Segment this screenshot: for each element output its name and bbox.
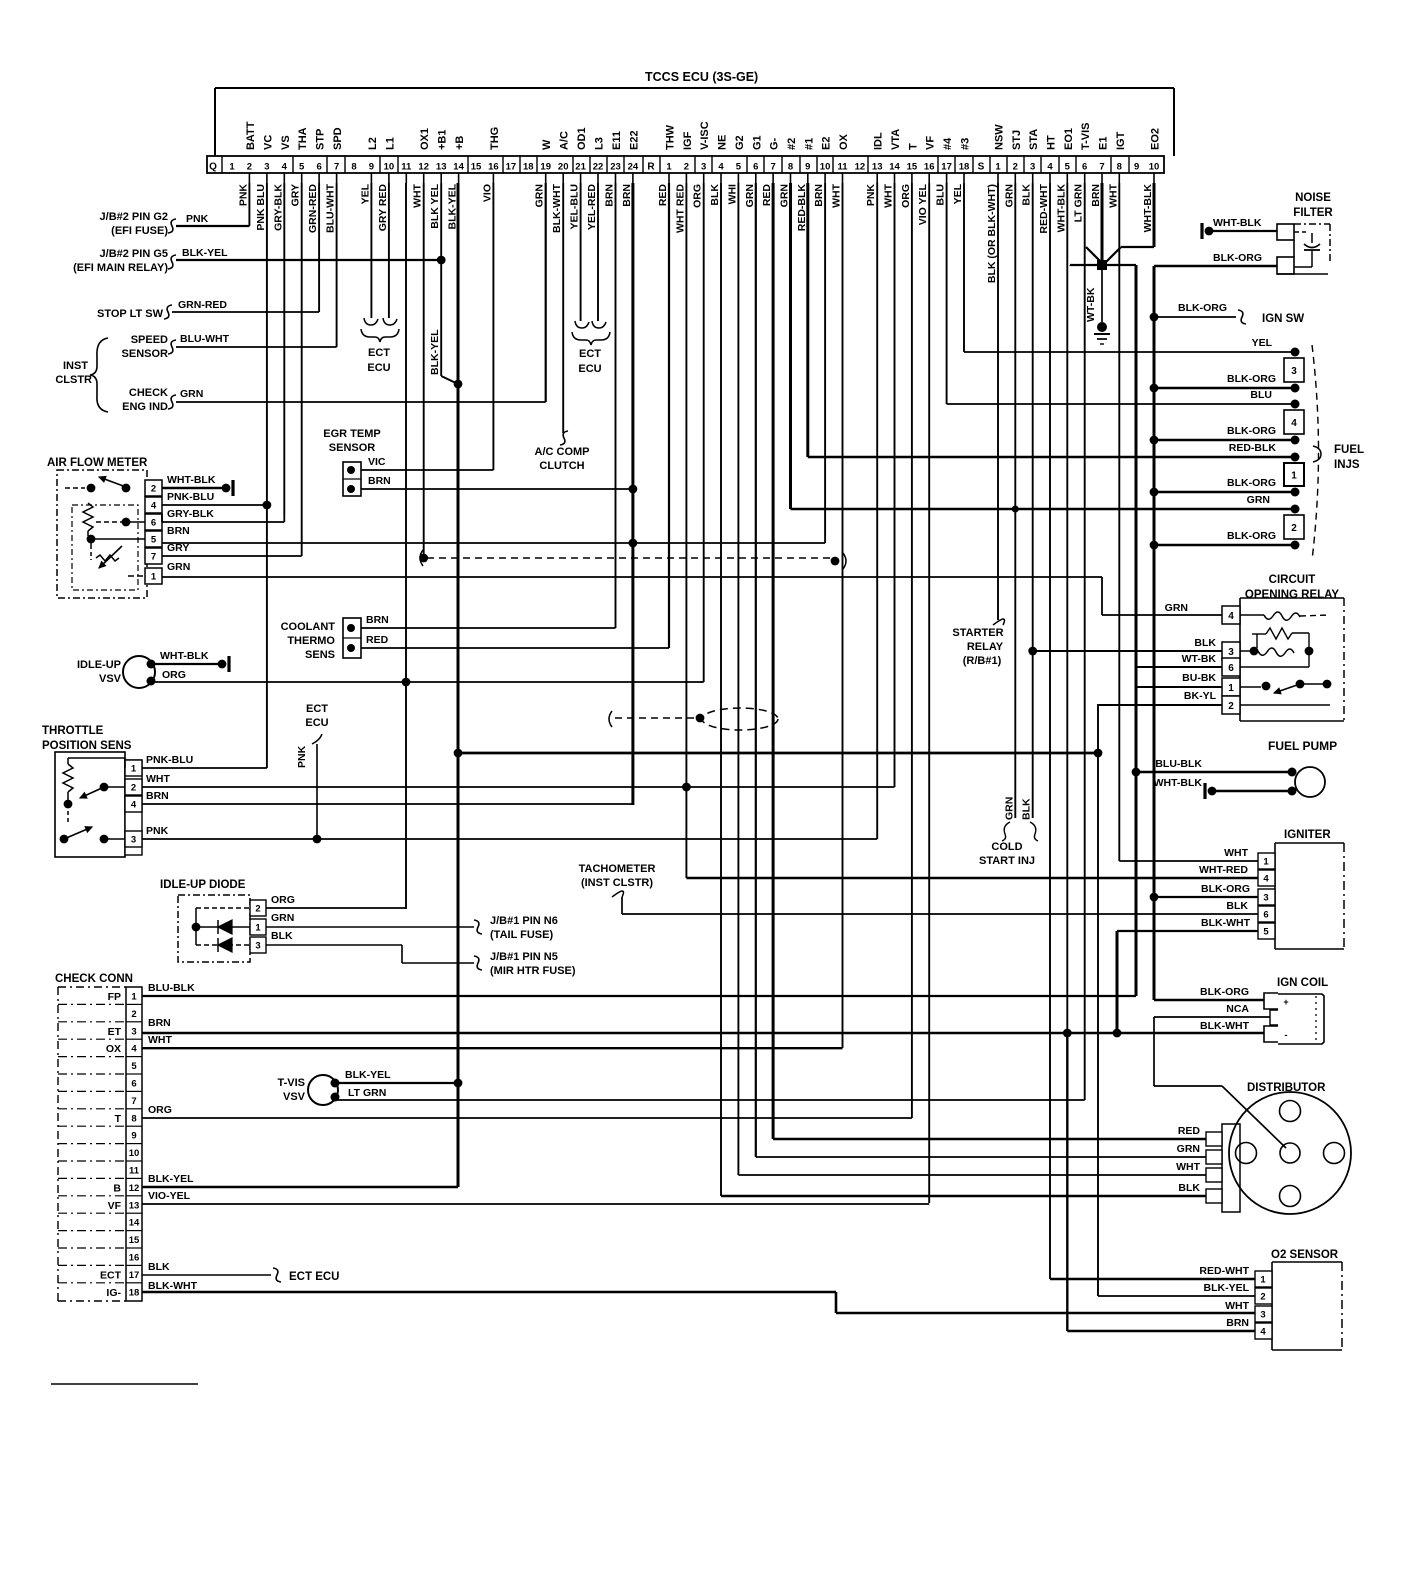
junction GRN S2 crossing [1012, 506, 1019, 513]
wire S10 WHT-BLK vertical [1153, 183, 1156, 247]
svg-text:YEL: YEL [1252, 337, 1273, 349]
svg-text:PNK BLU: PNK BLU [255, 184, 267, 231]
IGN SW [1150, 313, 1159, 322]
svg-text:WHT: WHT [1176, 1161, 1200, 1173]
igniter pin boxes [1258, 853, 1275, 869]
air flow meter pin5 link [87, 535, 96, 544]
svg-text:3: 3 [701, 162, 706, 173]
svg-text:BLU-BLK: BLU-BLK [1155, 758, 1202, 770]
wire S5 WHT-BLK vertical [1066, 183, 1068, 1033]
distributor connector [1222, 1124, 1240, 1212]
svg-text:BLK-YEL: BLK-YEL [429, 329, 441, 375]
svg-text:VIO-YEL: VIO-YEL [148, 1190, 191, 1202]
svg-text:GRN: GRN [1247, 494, 1270, 506]
svg-text:GRN: GRN [779, 184, 791, 207]
svg-text:NE: NE [717, 135, 729, 150]
air flow meter pin boxes [145, 480, 162, 496]
idle-up diode pin boxes [250, 900, 266, 916]
svg-text:2: 2 [1291, 523, 1297, 534]
wire Q23 BRN vertical [615, 183, 617, 628]
svg-text:OX: OX [106, 1043, 121, 1055]
wire throttle PNK to R13 [142, 838, 877, 840]
svg-text:G2: G2 [734, 135, 746, 150]
svg-text:GRN: GRN [1177, 1143, 1200, 1155]
svg-text:12: 12 [418, 162, 429, 173]
E1 ground junction [1097, 260, 1107, 270]
wire Q5 GRY vertical [301, 183, 303, 556]
svg-text:START INJ: START INJ [979, 855, 1035, 867]
wire Q24 BRN net vertical [631, 183, 634, 805]
svg-text:WHT-BLK: WHT-BLK [1055, 184, 1067, 233]
svg-text:GRN: GRN [744, 184, 756, 207]
svg-text:SENSOR: SENSOR [122, 348, 169, 360]
svg-text:FILTER: FILTER [1293, 207, 1333, 219]
wire VSV WHT-BLK to ground [151, 663, 222, 665]
svg-text:BRN: BRN [813, 184, 825, 207]
air flow meter inner box [72, 505, 138, 590]
igniter box [1274, 843, 1276, 949]
wire check ET BRN to ign coil [142, 1032, 1264, 1035]
svg-text:WHT RED: WHT RED [674, 184, 686, 233]
svg-text:RED: RED [1178, 1125, 1201, 1137]
svg-text:YEL: YEL [359, 183, 371, 204]
circuit opening relay box [1240, 597, 1344, 599]
svg-text:9: 9 [1134, 162, 1139, 173]
svg-text:9: 9 [131, 1131, 136, 1142]
throttle sensor pin boxes [125, 760, 142, 855]
svg-text:ECT: ECT [368, 347, 390, 359]
svg-text:BLK-ORG: BLK-ORG [1201, 883, 1250, 895]
wire BLK-WHT vertical coil to igniter [1116, 931, 1119, 1033]
svg-text:6: 6 [1228, 663, 1234, 674]
A/C COMP CLUTCH [560, 431, 568, 445]
fuel injector group brace [1312, 345, 1319, 560]
svg-text:L1: L1 [384, 137, 396, 150]
circuit opening relay pin boxes [1222, 606, 1240, 624]
wire R14 WHT vertical [894, 183, 896, 787]
wire S2 GRN vertical to cold start inj [1014, 183, 1016, 818]
svg-text:GRN: GRN [271, 912, 294, 924]
svg-text:BLK-WHT: BLK-WHT [1201, 917, 1251, 929]
wire S8 WHT vertical to igniter [1118, 183, 1120, 861]
wire PNK to Q2 [176, 225, 249, 227]
wire R17 BLU vertical to injector 4 [946, 183, 948, 404]
svg-text:BLK-YEL: BLK-YEL [182, 247, 228, 259]
svg-text:BRN: BRN [604, 184, 616, 207]
svg-text:15: 15 [471, 162, 482, 173]
junction ORG Q11 [402, 678, 411, 687]
svg-text:2: 2 [131, 783, 136, 794]
svg-text:E22: E22 [628, 130, 640, 150]
wire igniter BLK-WHT [1117, 930, 1258, 932]
relay coil pin4 [1240, 614, 1264, 616]
svg-text:BLK: BLK [1178, 1182, 1200, 1194]
svg-text:6: 6 [1082, 162, 1087, 173]
wire check B BLK-YEL to +B net [142, 1186, 458, 1188]
svg-text:8: 8 [131, 1113, 136, 1124]
svg-text:BRN: BRN [621, 184, 633, 207]
svg-text:GRN-RED: GRN-RED [178, 299, 227, 311]
svg-text:WHT-BLK: WHT-BLK [1154, 777, 1203, 789]
distributor body [1229, 1092, 1351, 1214]
svg-text:BRN: BRN [1090, 184, 1102, 207]
svg-text:9: 9 [805, 162, 810, 173]
svg-text:GRN: GRN [180, 388, 203, 400]
svg-text:3: 3 [131, 1026, 136, 1037]
svg-text:VSV: VSV [283, 1091, 306, 1103]
wire S4 RED-WHT vertical to O2 sensor [1049, 183, 1051, 1279]
wire Q9 YEL vertical to ECT ECU brace [370, 183, 372, 318]
svg-text:RED-WHT: RED-WHT [1038, 183, 1050, 233]
svg-text:WHT: WHT [883, 183, 895, 207]
wire Q19 GRN vertical [545, 183, 547, 402]
wire throttle BRN to BRN net [142, 803, 633, 805]
wire check ECT BLK to ECT ECU [142, 1274, 271, 1276]
svg-text:BLK: BLK [148, 1261, 170, 1273]
svg-text:RED-BLK: RED-BLK [1229, 442, 1277, 454]
svg-text:POSITION SENS: POSITION SENS [42, 740, 132, 752]
svg-text:ORG: ORG [162, 669, 186, 681]
svg-text:2: 2 [151, 484, 156, 495]
wire S6 LT-GRN vertical to T-VIS VSV [1084, 183, 1086, 1100]
wire Q16 VIO vertical [492, 183, 494, 470]
wire R1 RED vertical [668, 183, 670, 648]
svg-text:IGN SW: IGN SW [1262, 313, 1304, 325]
svg-text:#2: #2 [786, 138, 798, 150]
air flow meter resistor [83, 503, 93, 531]
svg-text:20: 20 [558, 162, 569, 173]
svg-text:#1: #1 [803, 138, 815, 150]
svg-text:12: 12 [855, 162, 866, 173]
svg-text:17: 17 [129, 1270, 140, 1281]
svg-text:CIRCUIT: CIRCUIT [1269, 574, 1316, 586]
svg-text:IDLE-UP DIODE: IDLE-UP DIODE [160, 879, 246, 891]
svg-text:8: 8 [1117, 162, 1122, 173]
INST CLSTR brace [90, 338, 108, 412]
svg-text:BLK: BLK [1021, 184, 1033, 206]
svg-text:S: S [978, 162, 985, 173]
svg-text:BLK YEL: BLK YEL [429, 183, 441, 228]
svg-text:23: 23 [610, 162, 621, 173]
wire BLU-WHT to Q7 [176, 346, 337, 348]
svg-text:(EFI FUSE): (EFI FUSE) [111, 225, 168, 237]
wire Q11 vertical (idle-up ORG net) [405, 183, 407, 908]
svg-text:BLK-ORG: BLK-ORG [1200, 986, 1249, 998]
wire check IG- BLK-WHT to O2 sensor [142, 1291, 836, 1294]
svg-text:8: 8 [788, 162, 793, 173]
O2 sensor pin boxes [1255, 1271, 1272, 1287]
wire Q4 GRY-BLK vertical [283, 183, 285, 514]
EGR sensor connector [343, 462, 361, 496]
svg-text:INJS: INJS [1334, 459, 1360, 471]
svg-text:A/C: A/C [559, 131, 571, 150]
wire R18 YEL to injector 3 [964, 351, 1295, 353]
wire BLK-ORG vertical [1153, 266, 1156, 1000]
svg-text:ECT: ECT [579, 348, 601, 360]
svg-text:PNK-BLU: PNK-BLU [146, 754, 193, 766]
svg-text:1: 1 [666, 162, 672, 173]
J/B#1 PIN N6 (TAIL FUSE) [474, 920, 482, 934]
wire +B BLK-YEL long feed to relay/O2 [458, 752, 1098, 755]
svg-text:24: 24 [628, 162, 639, 173]
svg-text:6: 6 [151, 518, 156, 529]
svg-text:G1: G1 [751, 135, 763, 150]
ECU connector pin row [207, 156, 1164, 173]
wire GRN-RED to Q6 [172, 311, 319, 313]
wire igniter WHT-RED from R2 [686, 877, 1258, 879]
svg-text:ORG: ORG [148, 1104, 172, 1116]
wire distributor RED from R7 [773, 1138, 1206, 1141]
svg-text:B: B [113, 1182, 121, 1194]
svg-text:A/C COMP: A/C COMP [535, 446, 590, 458]
underline mark bottom left [51, 1383, 198, 1385]
svg-text:18: 18 [523, 162, 534, 173]
svg-text:WT-BK: WT-BK [1182, 653, 1217, 665]
svg-text:GRN: GRN [167, 561, 190, 573]
wire AFM WHT-BLK to ground [162, 487, 226, 489]
svg-text:3: 3 [1263, 893, 1268, 904]
svg-text:1: 1 [255, 923, 261, 934]
wire check FP BLU-BLK to fuel pump [142, 995, 1136, 997]
wire BLK-YEL to Q13 [176, 259, 441, 261]
svg-text:GRN: GRN [1003, 184, 1015, 207]
svg-text:GRY: GRY [290, 184, 302, 206]
svg-text:1: 1 [995, 162, 1001, 173]
wire T-VIS LT GRN to S6 [335, 1099, 1085, 1101]
svg-text:EO2: EO2 [1150, 128, 1162, 150]
junction shield R11 [831, 557, 840, 566]
wire AFM GRN to circuit opening relay pin 4 [162, 576, 1102, 578]
wire igniter BLK-ORG [1150, 893, 1159, 902]
wire R11 WHT vertical [842, 183, 844, 1048]
svg-text:4: 4 [718, 162, 724, 173]
svg-text:T-VIS: T-VIS [277, 1077, 305, 1089]
svg-text:3: 3 [1030, 162, 1035, 173]
svg-text:7: 7 [151, 552, 156, 563]
svg-text:ECT: ECT [306, 703, 328, 715]
svg-text:WHT: WHT [148, 1034, 172, 1046]
svg-text:BLK-ORG: BLK-ORG [1227, 477, 1276, 489]
noise filter capacitor [1294, 231, 1306, 233]
svg-text:CLUTCH: CLUTCH [539, 460, 584, 472]
wire BLU-BLK vertical to fuel pump [1135, 265, 1138, 996]
svg-text:IGN COIL: IGN COIL [1277, 977, 1328, 989]
wire R3 ORG vertical [703, 183, 705, 682]
svg-text:BLK-ORG: BLK-ORG [1227, 373, 1276, 385]
svg-text:7: 7 [334, 162, 339, 173]
svg-text:5: 5 [131, 1061, 137, 1072]
svg-text:15: 15 [129, 1235, 140, 1246]
diode internals [195, 908, 197, 945]
throttle sensor body box [55, 752, 125, 857]
svg-text:LT GRN: LT GRN [348, 1087, 386, 1099]
pin tick stubs below row [248, 173, 250, 183]
svg-text:16: 16 [924, 162, 935, 173]
svg-text:GRN: GRN [1003, 797, 1015, 820]
wire fuel pump BLU-BLK [1132, 768, 1141, 777]
wire BLK-YEL vertical COR pin2 / O2 pin2 [1097, 704, 1099, 1296]
svg-text:BLK-ORG: BLK-ORG [1178, 302, 1227, 314]
svg-text:1: 1 [1228, 683, 1234, 694]
svg-text:6: 6 [131, 1079, 136, 1090]
svg-text:PNK: PNK [237, 184, 249, 207]
svg-text:WHT-BLK: WHT-BLK [1142, 184, 1154, 233]
svg-text:10: 10 [820, 162, 831, 173]
wire relay BLK from S3 [1033, 650, 1222, 652]
dashed shield NE G signals [609, 711, 612, 727]
svg-text:BK-YL: BK-YL [1184, 690, 1217, 702]
svg-text:BLU: BLU [935, 184, 947, 206]
svg-text:3: 3 [255, 941, 260, 952]
svg-text:STJ: STJ [1011, 130, 1023, 150]
svg-text:COOLANT: COOLANT [281, 621, 336, 633]
air flow meter body box [57, 470, 147, 598]
junction shield Q12 [419, 554, 428, 563]
svg-text:2: 2 [1260, 1292, 1265, 1303]
svg-text:11: 11 [129, 1166, 140, 1177]
wire Q12 WHT vertical to shield [423, 183, 425, 558]
relay resistor [1256, 634, 1258, 648]
svg-text:J/B#2 PIN G2: J/B#2 PIN G2 [100, 211, 168, 223]
svg-text:4: 4 [1291, 418, 1297, 429]
wire R16 VIO-YEL vertical [928, 183, 930, 1203]
svg-text:LT GRN: LT GRN [1073, 184, 1085, 222]
svg-text:10: 10 [1149, 162, 1160, 173]
svg-text:PNK: PNK [146, 825, 169, 837]
junction BLK-YEL +B [454, 1079, 463, 1088]
wire O2 BRN [1067, 1330, 1255, 1333]
wire Q13 BLK-YEL vertical [440, 183, 442, 376]
svg-text:RED: RED [657, 184, 669, 207]
svg-text:SENSOR: SENSOR [329, 442, 376, 454]
svg-text:RED-BLK: RED-BLK [796, 184, 808, 232]
wire R6 GRN vertical to distributor [755, 183, 757, 1157]
svg-text:4: 4 [282, 162, 288, 173]
svg-text:5: 5 [151, 535, 157, 546]
wire S7 E1 vertical to ground junction [1101, 183, 1104, 262]
svg-text:RED: RED [761, 184, 773, 207]
svg-text:THG: THG [489, 127, 501, 150]
wire igniter WHT from S8 [1119, 860, 1258, 862]
svg-text:ECT: ECT [100, 1269, 122, 1281]
wire Q21 YEL-BLU vertical to ECT ECU brace [580, 183, 582, 321]
wire distributor GRN from R6 [756, 1156, 1206, 1158]
svg-text:BLK-ORG: BLK-ORG [1227, 425, 1276, 437]
svg-text:17: 17 [506, 162, 517, 173]
check connector box [57, 987, 59, 1301]
wire throttle PNK-BLU to Q3 [142, 767, 267, 769]
wire R13 PNK vertical [876, 183, 878, 839]
svg-text:18: 18 [959, 162, 970, 173]
svg-text:STA: STA [1028, 129, 1040, 150]
wire O2 BLK-YEL [1098, 1295, 1255, 1297]
svg-text:CHECK: CHECK [129, 387, 168, 399]
svg-text:NOISE: NOISE [1295, 192, 1331, 204]
wire O2 RED-WHT from S4 [1050, 1278, 1255, 1281]
svg-text:BLK-WHT: BLK-WHT [551, 183, 563, 233]
svg-text:PNK: PNK [865, 184, 877, 207]
svg-text:(R/B#1): (R/B#1) [963, 655, 1002, 667]
wire VIC to Q16 [361, 469, 493, 471]
svg-text:IGNITER: IGNITER [1284, 829, 1331, 841]
fuel pump motor circle [1295, 767, 1325, 797]
svg-text:YEL-BLU: YEL-BLU [569, 184, 581, 230]
svg-text:GRN-RED: GRN-RED [307, 184, 319, 233]
wire diode GRN to tail fuse [266, 926, 474, 928]
svg-text:VIC: VIC [368, 456, 386, 468]
junction WHT R2 [682, 783, 691, 792]
svg-text:6: 6 [316, 162, 321, 173]
svg-text:4: 4 [1228, 611, 1234, 622]
svg-text:14: 14 [129, 1218, 140, 1229]
svg-text:L2: L2 [367, 137, 379, 150]
svg-text:-: - [1285, 1030, 1288, 1040]
svg-text:15: 15 [907, 162, 918, 173]
svg-text:(INST CLSTR): (INST CLSTR) [581, 877, 653, 889]
dashed shield line OX1 [420, 550, 423, 566]
svg-text:10: 10 [129, 1148, 140, 1159]
svg-text:WHT-BLK: WHT-BLK [167, 474, 216, 486]
svg-text:1: 1 [1260, 1275, 1266, 1286]
svg-text:VF: VF [925, 136, 937, 150]
svg-text:11: 11 [837, 162, 848, 173]
svg-text:1: 1 [1291, 471, 1297, 482]
svg-text:WHT: WHT [412, 183, 424, 207]
air flow meter temp resistor [96, 555, 119, 561]
svg-text:12: 12 [129, 1183, 140, 1194]
svg-text:WHT-RED: WHT-RED [1199, 864, 1248, 876]
J/B#1 PIN N5 (MIR HTR FUSE) [474, 956, 482, 970]
svg-text:IGF: IGF [682, 131, 694, 150]
svg-text:ET: ET [108, 1026, 122, 1038]
wire noise filter BLK-ORG [1154, 265, 1277, 267]
svg-text:NCA: NCA [1226, 1003, 1249, 1015]
relay pin2 line [1240, 704, 1330, 706]
svg-text:BLK-YEL: BLK-YEL [345, 1069, 391, 1081]
svg-text:STP: STP [315, 129, 327, 150]
svg-text:OD1: OD1 [576, 127, 588, 150]
wire T-VIS BLK-YEL to +B net [335, 1082, 458, 1084]
wire R18 YEL vertical to injector 3 [963, 183, 965, 352]
wire coolant BRN to Q23 [361, 627, 616, 629]
svg-text:BLK-YEL: BLK-YEL [1204, 1282, 1250, 1294]
wire AFM GRY to Q5 [162, 555, 302, 557]
svg-text:BRN: BRN [368, 475, 391, 487]
svg-text:VIO YEL: VIO YEL [917, 183, 929, 225]
svg-text:T: T [115, 1113, 122, 1125]
svg-text:EGR TEMP: EGR TEMP [323, 428, 380, 440]
wire R15 ORG vertical [911, 183, 913, 1118]
wire R10 BRN vertical [824, 183, 826, 543]
svg-text:BU-BK: BU-BK [1182, 672, 1216, 684]
svg-text:BLK: BLK [1226, 900, 1248, 912]
svg-text:18: 18 [129, 1287, 140, 1298]
injector bodies [1291, 348, 1300, 357]
svg-text:WHT: WHT [1225, 1300, 1249, 1312]
svg-text:22: 22 [593, 162, 604, 173]
svg-text:GRY RED: GRY RED [377, 184, 389, 232]
wire GRN to Q19 [176, 401, 546, 403]
svg-text:SENS: SENS [305, 649, 335, 661]
svg-text:WHI: WHI [726, 184, 738, 204]
wire R9 RED-BLK vertical to injector 1 [806, 183, 809, 457]
wire BRN vertical to O2 sensor pin 4 [1066, 1033, 1068, 1331]
svg-text:WT-BK: WT-BK [1085, 287, 1097, 322]
wire tachometer to igniter BLK [621, 897, 623, 914]
wire R8 GRN to injector 2 [791, 508, 1296, 511]
svg-text:BLK-WHT: BLK-WHT [148, 1280, 198, 1292]
svg-text:2: 2 [1228, 701, 1234, 712]
